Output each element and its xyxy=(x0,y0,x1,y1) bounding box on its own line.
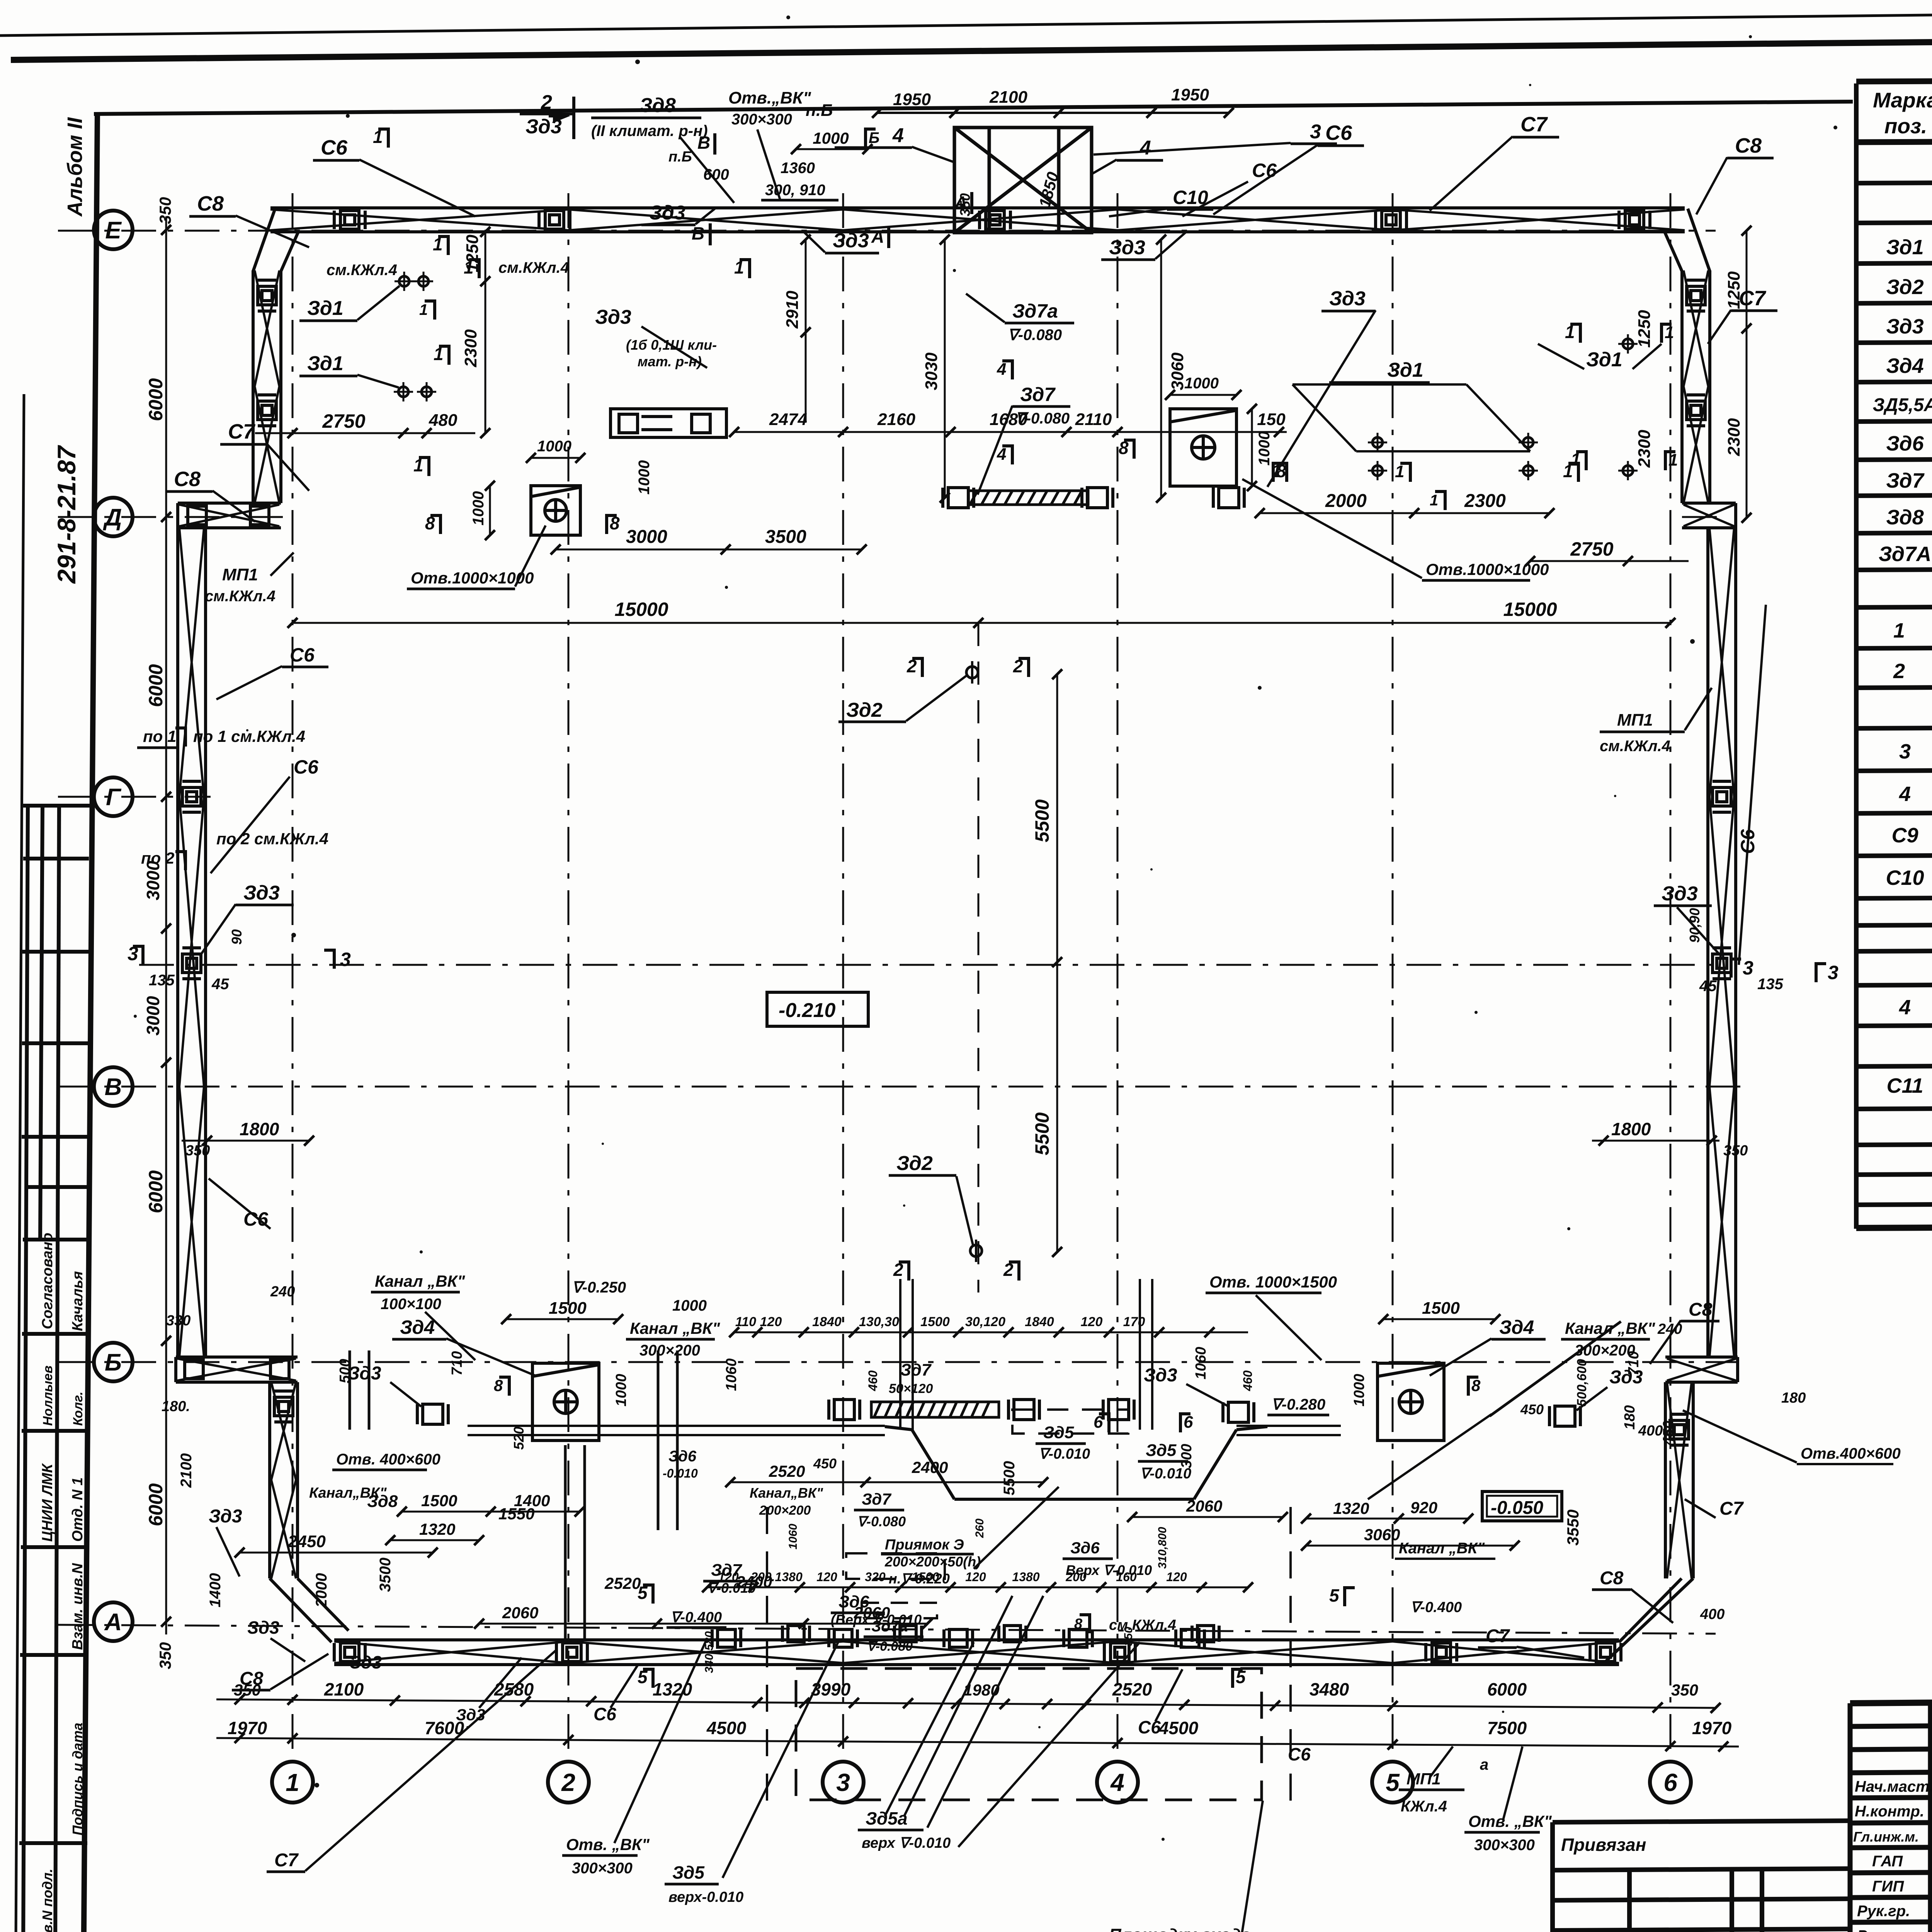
svg-text:С6: С6 xyxy=(1252,160,1277,181)
svg-text:Отв.400×600: Отв.400×600 xyxy=(1801,1445,1901,1462)
node flags 5 xyxy=(643,1583,653,1604)
svg-text:Рук.гр.: Рук.гр. xyxy=(1857,1903,1910,1920)
svg-text:1950: 1950 xyxy=(1171,85,1209,104)
svg-text:7500: 7500 xyxy=(1487,1718,1527,1738)
node bottom dimension row 1 xyxy=(216,1694,1721,1713)
svg-text:Канал„ВК": Канал„ВК" xyxy=(750,1485,823,1501)
svg-text:8: 8 xyxy=(425,513,435,533)
svg-text:3000: 3000 xyxy=(626,527,667,547)
node dashed platform rectangle xyxy=(796,1668,1262,1800)
embedded plate on wall band right lower xyxy=(1670,1414,1689,1445)
svg-text:Зд7: Зд7 xyxy=(1886,469,1925,492)
svg-text:120: 120 xyxy=(965,1570,986,1584)
svg-text:2100: 2100 xyxy=(178,1453,195,1488)
svg-text:2910: 2910 xyxy=(783,291,802,329)
svg-text:верх-0.010: верх-0.010 xyxy=(668,1889,743,1905)
svg-text:1000: 1000 xyxy=(470,491,487,526)
svg-text:см.КЖл.4: см.КЖл.4 xyxy=(1109,1617,1176,1633)
node pad bottom left xyxy=(532,1363,599,1440)
axis circle Б xyxy=(94,1343,133,1381)
svg-text:В: В xyxy=(692,223,704,243)
node level mark -0.050 xyxy=(1482,1492,1562,1521)
svg-text:180.: 180. xyxy=(162,1398,190,1415)
svg-text:3: 3 xyxy=(1828,962,1838,983)
svg-text:2750: 2750 xyxy=(322,410,365,432)
svg-text:2300: 2300 xyxy=(1464,491,1506,511)
svg-text:1: 1 xyxy=(1395,462,1404,481)
svg-text:см.КЖл.4: см.КЖл.4 xyxy=(205,588,276,605)
svg-text:Марка: Марка xyxy=(1873,88,1932,112)
wall band left main xyxy=(178,528,206,1357)
embedded plate on wall band left main xyxy=(182,781,201,812)
node leaders from ZD5a group xyxy=(885,1642,974,1816)
svg-text:Зд3: Зд3 xyxy=(1109,236,1145,259)
axis circle Е xyxy=(94,211,133,249)
svg-text:Зд3: Зд3 xyxy=(1144,1365,1177,1386)
svg-text:С6: С6 xyxy=(321,136,348,159)
svg-text:С6: С6 xyxy=(594,1704,616,1724)
svg-text:Отв.1000×1000: Отв.1000×1000 xyxy=(1426,560,1549,578)
svg-text:Зд2: Зд2 xyxy=(896,1152,933,1175)
svg-text:Зд3: Зд3 xyxy=(209,1506,242,1527)
svg-text:Зд3: Зд3 xyxy=(649,202,685,224)
embedded plate on wall band right main xyxy=(1713,781,1731,812)
svg-text:450: 450 xyxy=(1660,1421,1677,1446)
svg-text:3: 3 xyxy=(128,943,138,964)
svg-text:∇-0.250: ∇-0.250 xyxy=(572,1279,626,1296)
svg-text:∇-0.400: ∇-0.400 xyxy=(670,1609,722,1626)
svg-text:460: 460 xyxy=(1241,1370,1255,1391)
svg-text:1970: 1970 xyxy=(228,1718,267,1738)
svg-text:Зд3: Зд3 xyxy=(1329,287,1366,310)
svg-text:1840: 1840 xyxy=(1025,1315,1054,1329)
node left margin stamp grid xyxy=(18,806,91,1932)
svg-text:6000: 6000 xyxy=(145,1483,167,1526)
svg-text:Отв. „ВК": Отв. „ВК" xyxy=(566,1835,650,1854)
wire inner top frame xyxy=(94,102,1853,114)
node big detail box C10 xyxy=(954,128,1092,233)
svg-text:4: 4 xyxy=(997,360,1006,379)
node channel double line vertical 2 xyxy=(565,1350,677,1640)
svg-text:Зд2: Зд2 xyxy=(1886,276,1923,299)
svg-text:1000: 1000 xyxy=(1351,1374,1367,1406)
svg-text:1000: 1000 xyxy=(613,1374,629,1406)
svg-text:Канал „ВК": Канал „ВК" xyxy=(630,1319,720,1337)
svg-text:Подпись и дата: Подпись и дата xyxy=(70,1723,85,1835)
svg-text:см.КЖл.4: см.КЖл.4 xyxy=(498,259,569,276)
embedded plate on wall band left main xyxy=(182,948,201,979)
svg-text:мат. р-н): мат. р-н) xyxy=(638,354,702,369)
svg-text:Согласовано: Согласовано xyxy=(39,1233,56,1329)
svg-text:а: а xyxy=(1480,1756,1488,1773)
svg-text:4500: 4500 xyxy=(1158,1718,1199,1738)
svg-text:1: 1 xyxy=(1571,449,1581,469)
svg-text:2: 2 xyxy=(541,91,552,114)
embedded plate on wall band right upper xyxy=(1687,395,1705,426)
svg-text:верх ∇-0.010: верх ∇-0.010 xyxy=(862,1835,951,1851)
node dim 3000 3500 xyxy=(551,544,867,554)
svg-text:∇-0.080: ∇-0.080 xyxy=(1008,327,1062,344)
embedded plate on wall band top axis E xyxy=(334,211,365,229)
svg-text:291-8-21.87: 291-8-21.87 xyxy=(52,445,81,584)
svg-text:200×200×50(h): 200×200×50(h) xyxy=(884,1554,981,1570)
axis circle 4 xyxy=(1097,1762,1138,1803)
axis circle 5 xyxy=(1372,1762,1413,1803)
svg-text:ЗД5,5А: ЗД5,5А xyxy=(1873,395,1932,415)
svg-text:2060: 2060 xyxy=(1186,1497,1222,1515)
node dashed verticals xyxy=(766,1507,768,1801)
embedded plate on wall band bottom axis A xyxy=(1590,1643,1621,1662)
svg-text:160: 160 xyxy=(1116,1570,1137,1584)
svg-text:8: 8 xyxy=(1471,1376,1481,1395)
svg-text:1500: 1500 xyxy=(421,1492,457,1510)
svg-text:С6: С6 xyxy=(290,644,315,666)
svg-text:5: 5 xyxy=(1236,1667,1246,1687)
svg-text:8: 8 xyxy=(610,513,620,533)
svg-text:Г: Г xyxy=(106,784,122,811)
svg-text:15000: 15000 xyxy=(1503,599,1557,620)
svg-text:170: 170 xyxy=(1123,1315,1145,1329)
svg-text:1800: 1800 xyxy=(240,1119,279,1139)
svg-text:Взам. инв.N: Взам. инв.N xyxy=(70,1563,86,1650)
svg-text:1060: 1060 xyxy=(1193,1347,1209,1379)
svg-text:С7: С7 xyxy=(1486,1626,1510,1646)
wall band top axis E xyxy=(270,208,1685,232)
svg-text:Зд4: Зд4 xyxy=(1886,354,1923,378)
svg-text:1: 1 xyxy=(734,257,744,277)
svg-text:Отв.„ВК": Отв.„ВК" xyxy=(728,88,811,107)
svg-text:350: 350 xyxy=(1723,1143,1748,1159)
axis circle Г xyxy=(94,777,133,816)
svg-text:4: 4 xyxy=(997,445,1006,464)
node hatched bar xyxy=(968,491,1088,505)
svg-text:340,580: 340,580 xyxy=(703,1631,716,1673)
node dim 2000 2300 xyxy=(1255,508,1554,518)
node left margin stamp texts (rotated) xyxy=(39,1233,86,1932)
svg-text:Зд3: Зд3 xyxy=(456,1706,485,1724)
svg-text:1000: 1000 xyxy=(636,460,653,495)
svg-text:4500: 4500 xyxy=(706,1718,747,1738)
svg-text:5: 5 xyxy=(638,1667,648,1687)
svg-text:5: 5 xyxy=(1329,1585,1340,1605)
svg-text:120: 120 xyxy=(760,1315,782,1329)
svg-text:Качалья: Качалья xyxy=(70,1271,86,1331)
svg-text:∇-0.280: ∇-0.280 xyxy=(1271,1396,1325,1413)
svg-text:С6: С6 xyxy=(1288,1744,1311,1764)
svg-text:1000: 1000 xyxy=(537,438,571,455)
svg-text:110: 110 xyxy=(735,1315,756,1329)
svg-text:120: 120 xyxy=(718,1570,739,1584)
embedded plate on wall band top axis E xyxy=(539,211,570,229)
svg-text:300×300: 300×300 xyxy=(731,111,792,128)
svg-text:1000: 1000 xyxy=(813,129,849,147)
svg-text:Приямок Э: Приямок Э xyxy=(885,1537,964,1553)
axis circle Д xyxy=(94,498,133,536)
svg-text:500: 500 xyxy=(337,1359,353,1383)
node flags 6 xyxy=(1099,1412,1109,1432)
svg-text:ЦНИИ ЛМК: ЦНИИ ЛМК xyxy=(39,1463,56,1542)
node flag 1 top xyxy=(378,128,388,148)
svg-text:300×300: 300×300 xyxy=(572,1860,633,1877)
wire left outer margin line xyxy=(15,394,24,1932)
svg-text:С6: С6 xyxy=(1138,1717,1161,1737)
svg-text:1380: 1380 xyxy=(1012,1570,1039,1584)
svg-text:920: 920 xyxy=(1410,1498,1437,1517)
svg-text:460: 460 xyxy=(866,1370,880,1391)
svg-text:6000: 6000 xyxy=(145,1170,167,1213)
svg-text:1800: 1800 xyxy=(1611,1119,1651,1139)
svg-text:С6: С6 xyxy=(243,1208,269,1230)
svg-text:1060: 1060 xyxy=(723,1358,740,1391)
svg-text:С6: С6 xyxy=(1737,829,1759,854)
svg-text:1: 1 xyxy=(419,301,428,318)
svg-text:п.Б: п.Б xyxy=(806,101,833,120)
wall band left lower xyxy=(270,1382,298,1578)
svg-text:Зд1: Зд1 xyxy=(1886,236,1923,259)
embedded plate on wall band left upper xyxy=(258,280,276,311)
svg-text:Зд1: Зд1 xyxy=(1586,349,1622,371)
svg-text:200×200: 200×200 xyxy=(759,1503,811,1518)
wire underfloor canal double line across xyxy=(468,1426,1341,1435)
svg-text:200: 200 xyxy=(1065,1570,1087,1584)
svg-text:6000: 6000 xyxy=(145,378,167,421)
svg-text:2450: 2450 xyxy=(287,1532,326,1551)
svg-text:330: 330 xyxy=(166,1313,190,1329)
svg-text:∇-0.010: ∇-0.010 xyxy=(1039,1446,1090,1462)
svg-text:С6: С6 xyxy=(1325,121,1352,145)
svg-text:1680: 1680 xyxy=(990,410,1027,429)
node spec table rows text xyxy=(1873,196,1932,1103)
svg-text:Зд2: Зд2 xyxy=(846,699,883,721)
svg-text:300×300: 300×300 xyxy=(1474,1837,1535,1854)
svg-text:А: А xyxy=(871,226,884,247)
node level mark -0.210 xyxy=(767,992,868,1026)
svg-text:А: А xyxy=(104,1609,122,1636)
svg-text:1320: 1320 xyxy=(1333,1499,1369,1517)
svg-text:КЖл.4: КЖл.4 xyxy=(1401,1798,1447,1815)
wire main top border xyxy=(11,35,1932,60)
svg-text:400: 400 xyxy=(1700,1606,1725,1622)
svg-text:310,800: 310,800 xyxy=(1156,1527,1169,1569)
svg-text:1060: 1060 xyxy=(787,1524,799,1549)
wall jog at axis B right xyxy=(1665,1357,1738,1382)
svg-text:4: 4 xyxy=(1899,782,1911,806)
svg-text:Зд1: Зд1 xyxy=(307,352,344,375)
svg-text:МП1: МП1 xyxy=(1406,1770,1441,1788)
svg-text:2520: 2520 xyxy=(604,1574,641,1592)
svg-text:2110: 2110 xyxy=(1075,410,1112,429)
svg-text:3060: 3060 xyxy=(1168,352,1187,390)
axis circle А xyxy=(94,1602,133,1641)
wall band left upper xyxy=(253,270,281,503)
svg-text:350: 350 xyxy=(156,197,174,224)
svg-text:МП1: МП1 xyxy=(222,565,258,584)
svg-text:1: 1 xyxy=(286,1769,299,1796)
svg-text:135: 135 xyxy=(149,972,175,989)
svg-text:по 1: по 1 xyxy=(143,727,176,745)
node dim row 2474 2160 1680 2110 xyxy=(729,427,1287,437)
svg-text:-0.010: -0.010 xyxy=(663,1466,698,1480)
node extra squares row low xyxy=(782,1626,810,1642)
wire scan top edge xyxy=(0,6,1932,36)
node spec table header texts xyxy=(1873,88,1932,138)
svg-text:Д: Д xyxy=(103,504,122,531)
wall chamfer top-right xyxy=(1665,209,1710,271)
svg-text:1950: 1950 xyxy=(893,90,931,109)
svg-text:2100: 2100 xyxy=(324,1679,364,1699)
svg-text:Зд5: Зд5 xyxy=(672,1862,705,1883)
svg-text:С7: С7 xyxy=(1520,113,1548,136)
svg-text:Зд6: Зд6 xyxy=(1070,1539,1100,1557)
node pad bottom right xyxy=(1378,1363,1444,1440)
svg-text:С9: С9 xyxy=(1891,824,1918,847)
svg-text:2400: 2400 xyxy=(912,1458,948,1476)
svg-text:Отв. 1000×1500: Отв. 1000×1500 xyxy=(1209,1273,1337,1291)
svg-text:120: 120 xyxy=(1081,1315,1103,1329)
svg-text:2000: 2000 xyxy=(313,1573,330,1608)
svg-text:180: 180 xyxy=(1781,1390,1806,1406)
svg-text:Зд8: Зд8 xyxy=(367,1492,398,1511)
svg-text:1250: 1250 xyxy=(463,235,482,272)
svg-text:6: 6 xyxy=(1094,1413,1103,1432)
svg-text:Б: Б xyxy=(869,129,879,146)
wall band right upper xyxy=(1682,270,1710,503)
svg-text:С11: С11 xyxy=(1886,1074,1923,1097)
svg-text:∇-0.080: ∇-0.080 xyxy=(857,1514,906,1529)
node chute Otv 600x600 xyxy=(885,1427,1267,1499)
svg-text:Зд6: Зд6 xyxy=(1886,432,1924,455)
svg-text:1: 1 xyxy=(413,455,423,475)
svg-text:50×120: 50×120 xyxy=(889,1381,933,1396)
svg-text:1: 1 xyxy=(1668,451,1678,469)
svg-text:3: 3 xyxy=(836,1769,850,1796)
svg-text:Зд8: Зд8 xyxy=(1886,506,1923,529)
svg-text:4: 4 xyxy=(1139,137,1151,159)
svg-text:240: 240 xyxy=(270,1284,295,1300)
svg-text:Зд6: Зд6 xyxy=(668,1448,697,1465)
svg-text:400: 400 xyxy=(1638,1423,1663,1439)
svg-text:3480: 3480 xyxy=(1310,1679,1349,1699)
svg-text:5500: 5500 xyxy=(1031,1112,1053,1155)
node small squares row mid xyxy=(611,409,726,437)
node spec table grid xyxy=(1856,78,1932,1229)
svg-text:2300: 2300 xyxy=(461,329,480,367)
svg-text:1250: 1250 xyxy=(1635,310,1654,348)
svg-text:150: 150 xyxy=(1257,410,1286,429)
svg-text:350: 350 xyxy=(156,1642,174,1669)
svg-text:30,120: 30,120 xyxy=(965,1315,1005,1329)
svg-text:480: 480 xyxy=(429,411,457,430)
svg-text:3030: 3030 xyxy=(922,352,941,390)
svg-text:500,600: 500,600 xyxy=(1575,1359,1589,1406)
svg-text:см.КЖл.4: см.КЖл.4 xyxy=(327,262,397,279)
svg-text:3000: 3000 xyxy=(143,861,163,900)
svg-text:3000: 3000 xyxy=(143,996,163,1036)
svg-text:4: 4 xyxy=(1899,996,1911,1019)
svg-text:2300: 2300 xyxy=(1725,418,1743,456)
svg-text:Зд7: Зд7 xyxy=(900,1361,932,1379)
svg-text:3: 3 xyxy=(1899,740,1911,763)
svg-text:Б: Б xyxy=(105,1349,122,1376)
wall band right lower xyxy=(1665,1382,1693,1578)
embedded plate on wall band top axis E xyxy=(980,211,1010,229)
node dim 2750 right xyxy=(1525,556,1689,566)
node bottom dimension row 2 xyxy=(216,1733,1739,1752)
svg-text:2520: 2520 xyxy=(769,1462,805,1480)
svg-text:Зд7: Зд7 xyxy=(1020,384,1056,405)
svg-text:А: А xyxy=(954,192,967,213)
node dim 2750 480 xyxy=(255,428,475,438)
svg-text:по 1 см.КЖл.4: по 1 см.КЖл.4 xyxy=(193,727,305,745)
svg-text:В: В xyxy=(105,1074,122,1100)
svg-text:1500: 1500 xyxy=(920,1315,950,1329)
embedded plate on wall band bottom axis A xyxy=(1426,1643,1457,1662)
axis circle 6 xyxy=(1650,1762,1691,1803)
wall band right main xyxy=(1708,528,1736,1357)
svg-text:1550: 1550 xyxy=(498,1505,534,1523)
wall band bottom axis A xyxy=(334,1640,1619,1665)
svg-text:120: 120 xyxy=(816,1570,837,1584)
svg-text:15000: 15000 xyxy=(614,599,668,620)
svg-text:5500: 5500 xyxy=(1031,799,1053,842)
svg-text:см.КЖл.4: см.КЖл.4 xyxy=(1600,738,1670,755)
svg-text:С8: С8 xyxy=(1735,134,1762,157)
node title block grid xyxy=(1850,1697,1932,1932)
svg-text:Зд4: Зд4 xyxy=(1499,1316,1534,1338)
svg-text:135: 135 xyxy=(1757,976,1783,993)
svg-text:300, 910: 300, 910 xyxy=(765,182,825,199)
axis circle 3 xyxy=(823,1762,864,1803)
wall chamfer top-left xyxy=(253,209,298,271)
svg-text:3500: 3500 xyxy=(377,1558,394,1592)
svg-text:6: 6 xyxy=(1663,1769,1677,1796)
svg-text:∇-0.010: ∇-0.010 xyxy=(1140,1466,1191,1482)
svg-text:450: 450 xyxy=(1520,1401,1544,1417)
svg-text:8: 8 xyxy=(1119,438,1129,458)
svg-text:1000: 1000 xyxy=(1184,375,1219,392)
svg-text:3990: 3990 xyxy=(811,1679,851,1699)
svg-text:2: 2 xyxy=(1013,656,1023,676)
svg-text:п.Б: п.Б xyxy=(668,149,692,165)
svg-text:В: В xyxy=(697,133,710,153)
svg-text:2100: 2100 xyxy=(989,88,1027,107)
svg-text:Зд3: Зд3 xyxy=(833,230,869,252)
svg-text:3: 3 xyxy=(340,949,351,970)
svg-text:Зд3: Зд3 xyxy=(243,882,280,904)
svg-text:С7: С7 xyxy=(1719,1498,1744,1519)
node vertical channel pair center-left xyxy=(900,1279,1152,1430)
svg-text:260: 260 xyxy=(973,1519,986,1538)
svg-text:Зд7: Зд7 xyxy=(862,1490,891,1508)
svg-text:2520: 2520 xyxy=(1112,1679,1152,1699)
svg-text:Зд8: Зд8 xyxy=(639,94,676,117)
svg-text:5: 5 xyxy=(1386,1769,1400,1796)
svg-text:2300: 2300 xyxy=(1635,430,1654,468)
svg-text:С7: С7 xyxy=(274,1850,299,1871)
embedded plate on wall band left upper xyxy=(258,395,276,426)
svg-text:Канал „ВК": Канал „ВК" xyxy=(375,1272,465,1290)
svg-text:С10: С10 xyxy=(1886,866,1924,889)
svg-text:Отв. 400×600: Отв. 400×600 xyxy=(336,1451,440,1468)
svg-text:Альбом II: Альбом II xyxy=(63,117,87,217)
embedded plate on wall band bottom axis A xyxy=(1104,1643,1135,1662)
svg-text:Зд3: Зд3 xyxy=(350,1652,382,1672)
svg-text:Рук.гр.: Рук.гр. xyxy=(1857,1927,1910,1932)
svg-text:Зд5: Зд5 xyxy=(1146,1441,1177,1460)
svg-text:45: 45 xyxy=(211,976,229,993)
svg-text:3500: 3500 xyxy=(765,527,806,547)
embedded plate on wall band bottom axis A xyxy=(556,1643,587,1662)
